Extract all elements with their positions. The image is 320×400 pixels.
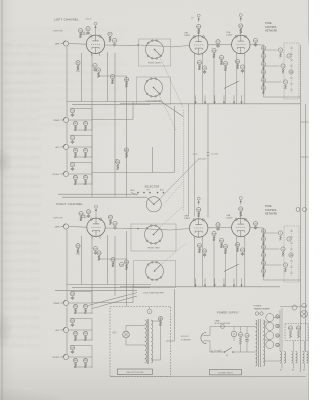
wire T1 primary top lead xyxy=(254,326,256,328)
resistor R39 on x126 xyxy=(124,260,128,264)
heater winding V5 xyxy=(303,352,305,364)
jack J5 tape input right xyxy=(63,224,68,229)
wire rail left y101 xyxy=(67,101,161,103)
output transformer T2 secondary xyxy=(151,320,153,363)
resistor R1 plate load V1A xyxy=(78,28,82,32)
B+ arrow above V3B xyxy=(198,201,200,206)
capacitor C23 cathode bypass V3A xyxy=(93,246,97,250)
wire corner x133 right xyxy=(132,285,134,303)
wire J1 to V1A grid xyxy=(69,43,86,46)
switch S2 power xyxy=(224,351,226,353)
capacitor C29 V4A cathode bypass xyxy=(240,248,244,252)
wire through P1 box xyxy=(138,45,171,47)
tone switch arm right xyxy=(224,264,239,272)
wire loop horizontal right xyxy=(166,340,175,342)
wire through wafer box right xyxy=(138,229,171,231)
resistor R23 cathode V3A xyxy=(76,244,80,248)
wire bus vertical from J5 xyxy=(66,229,68,300)
wire vertical x107 xyxy=(107,52,109,102)
B+ stub arrow left 5 xyxy=(233,95,235,104)
wire bus vertical from J1 xyxy=(66,46,68,117)
wire rectifier output xyxy=(274,317,280,319)
thermistor RT1 xyxy=(231,331,236,336)
capacitor C22 coupling V3A xyxy=(113,221,117,225)
rectifier stack SR1 xyxy=(266,314,274,322)
selector wiper linkage wire xyxy=(161,159,199,198)
B+ arrow above V4A xyxy=(240,200,242,205)
resistor R12 plate load V1B xyxy=(197,24,201,28)
tube V3B xyxy=(190,219,208,237)
wire plug top xyxy=(207,334,211,336)
wire stub right edge y122 xyxy=(301,121,309,123)
output transformer T2 core xyxy=(146,319,148,364)
level control P1 front panel left xyxy=(139,39,171,66)
resistor R38 V4A cathode xyxy=(235,242,239,246)
wire V1B pin drop 2 xyxy=(202,57,204,104)
wire V4A plate to R37 xyxy=(240,211,242,218)
wire heater bus top xyxy=(280,306,307,308)
power transformer T1 secondary xyxy=(263,320,264,366)
B+ stub arrow right 4 xyxy=(223,278,225,287)
wire T1 primary bottom lead xyxy=(254,351,256,353)
wire tone out left vertical xyxy=(300,45,302,372)
label box left bottom xyxy=(118,369,153,374)
heater winding V2/V4 xyxy=(292,352,294,364)
B+ stub arrow right 2 xyxy=(204,278,206,287)
wire bus vertical x115 right xyxy=(114,236,116,296)
wire V4A pin drop 2 xyxy=(244,239,246,287)
capacitor C10 tone feed xyxy=(253,38,257,42)
wire heater stubs xyxy=(281,363,283,369)
wire T2 to J9 bottom xyxy=(125,338,127,345)
resistor R43 bias xyxy=(296,326,300,330)
B+ arrow above V1B xyxy=(198,18,200,23)
resistor R34 V3B cathode xyxy=(197,243,201,247)
tone switch arm left xyxy=(224,81,239,89)
capacitor C28 V3B cathode bypass xyxy=(202,249,206,253)
resistor R16 xyxy=(223,61,227,65)
input cluster tuner right (jack J6, C24, R26, R27) xyxy=(63,300,68,305)
wire loop horizontal y172 xyxy=(92,172,175,174)
B+ stub arrow left 3 xyxy=(214,95,216,104)
capacitor C8 V1B cathode bypass xyxy=(202,66,206,70)
wire tone out left vertical 2 xyxy=(305,104,307,352)
left margin bleed column xyxy=(2,40,50,370)
resistor R35 xyxy=(219,238,223,242)
capacitor C31 line xyxy=(245,333,249,337)
B+ stub arrow right 6 xyxy=(241,278,243,287)
wire V4A pin drop 1 xyxy=(236,239,238,287)
wire V1B plate to R12 xyxy=(198,29,200,36)
wire selector feed y197 xyxy=(62,196,147,198)
pilot lamp DS1 xyxy=(301,311,308,318)
wire corner y119 xyxy=(92,119,133,121)
wire heater feed 3 xyxy=(304,341,306,352)
wire V1A plate to level control xyxy=(105,44,138,47)
wire V3B pin drop 1 xyxy=(194,240,196,287)
fuse F1 xyxy=(221,325,225,329)
wire bus vertical x81 xyxy=(81,53,83,102)
bias network dashed box xyxy=(285,324,308,341)
capacitor C2 coupling V1A xyxy=(112,38,116,42)
input cluster phono left (jack J4, C6, R10, R11) xyxy=(63,171,68,176)
selector terminals xyxy=(137,192,139,194)
wire V3B plate to C27 xyxy=(208,227,232,229)
mechanical linkage wafer2 right xyxy=(159,245,185,267)
output jack J11 xyxy=(303,208,307,212)
wire horizontal y76 xyxy=(98,75,127,77)
wire J5 to V3A grid xyxy=(69,226,86,229)
wire inter-channel run xyxy=(188,104,190,217)
speaker jack J9 xyxy=(123,331,130,338)
loudness control P2 rear wafer right xyxy=(134,261,176,288)
B+ terminal arrow above V1A xyxy=(95,26,97,31)
power transformer T1 core xyxy=(258,319,260,367)
mechanical linkage P2 to shaft xyxy=(158,92,177,132)
power transformer T1 primary xyxy=(256,320,257,366)
wire V2A pin drop 2 xyxy=(244,56,246,104)
B+ stub arrow right 5 xyxy=(233,278,235,287)
wire secondary taps xyxy=(263,321,270,323)
AC plug P3 xyxy=(201,333,207,344)
tube V3A xyxy=(87,218,105,236)
rectifier refs xyxy=(276,315,279,318)
wire selector feed y194 xyxy=(58,193,138,195)
wire rail left y104 xyxy=(72,103,150,105)
capacitor C7 coupling V1B to V2A xyxy=(216,40,220,44)
wire corner x133 xyxy=(132,102,134,120)
wire V3A plate to B+ xyxy=(95,213,97,218)
B+ stub arrow right 1 xyxy=(195,278,197,287)
resistor R24 cathode V3A xyxy=(97,251,101,255)
label box 120vac xyxy=(210,370,242,375)
tone control network right xyxy=(263,228,265,280)
tube V1A xyxy=(86,35,104,53)
resistor R2 grid V1A xyxy=(108,32,112,36)
resistor R41 surge xyxy=(238,332,242,336)
tube V1B xyxy=(190,36,208,54)
wire V2A pin drop 1 xyxy=(236,56,238,104)
level control P1 rear wafer right xyxy=(131,224,176,251)
wire vertical x126 right xyxy=(126,231,128,307)
wire bus vertical x81 right xyxy=(81,236,83,285)
B+ distribution rail right xyxy=(120,286,280,288)
resistor R15 xyxy=(219,55,223,59)
feeder wire to right channel xyxy=(207,104,209,218)
input cluster aux left (jack J3, C5, R8, R9) xyxy=(63,144,68,149)
wire T2 secondary bottom xyxy=(151,359,160,361)
wire V2A plate to R17 xyxy=(240,28,242,35)
wire V4A to tone network right xyxy=(250,227,264,230)
wire plug bottom xyxy=(207,340,211,342)
resistor R36 xyxy=(223,244,227,248)
B+ stub arrow right 3 xyxy=(214,278,216,287)
B+ arrow above V2A xyxy=(240,17,242,22)
resistor R40 dummy load xyxy=(158,316,162,320)
wire R16 drop xyxy=(225,71,227,104)
wire loop vertical x174 xyxy=(174,106,176,173)
loudness control P2 left xyxy=(137,77,171,104)
wire R33 drop xyxy=(213,241,215,287)
resistor R4 cathode V1A xyxy=(96,68,100,72)
resistor R32 plate load V3B xyxy=(197,207,201,211)
jack J1 tape input left xyxy=(63,41,68,46)
resistor R19b mid xyxy=(124,148,128,152)
wire diagonal to loudness label xyxy=(88,293,137,306)
wire heater feed 1 xyxy=(281,308,283,352)
wire rail right y290 xyxy=(55,289,137,291)
fuse holder circles xyxy=(292,305,297,310)
linkage diagonal to selector xyxy=(165,182,183,203)
wire bus vertical x92 right xyxy=(91,236,93,303)
wire bus vertical x115 xyxy=(114,53,116,197)
output transformer T2 primary xyxy=(145,320,147,363)
capacitor C9 V2A cathode bypass xyxy=(240,65,244,69)
wire rail right y287 xyxy=(72,286,150,288)
wire vertical x152 loop xyxy=(152,147,154,173)
wire P1 to V1B grid xyxy=(171,46,189,48)
wire vertical x126 xyxy=(126,76,128,197)
capacitor C21 decoupling V3A xyxy=(86,210,90,214)
resistor R3 cathode V1A xyxy=(76,61,80,65)
wire wafer to V3B grid xyxy=(171,229,189,231)
resistor R25 V3A bias xyxy=(111,257,115,261)
capacitor C36 on x126 xyxy=(119,262,123,266)
tube V2A xyxy=(232,35,250,53)
output jack J10 xyxy=(296,208,300,212)
wire V1B plate to C7 xyxy=(208,44,232,46)
B+ stub arrow left 1 xyxy=(195,95,197,104)
inline connector on feeder xyxy=(207,152,210,156)
wire R13 drop xyxy=(213,58,215,104)
resistor R33 grid leak V4A xyxy=(212,231,216,235)
resistor R22 grid V3A xyxy=(108,215,112,219)
wire V3B plate to R32 xyxy=(198,212,200,219)
wire V1B pin drop 1 xyxy=(194,57,196,217)
resistor R42 bias xyxy=(288,326,292,330)
circled note 1 xyxy=(147,309,152,314)
resistor R17 plate load V2A xyxy=(239,24,243,28)
B+ stub arrow left 4 xyxy=(223,95,225,104)
resistor R19 on x126 xyxy=(124,77,128,81)
scan edge artifacts xyxy=(1,0,3,400)
capacitor C3 cathode bypass V1A xyxy=(93,63,97,67)
input cluster aux right (jack J7, C25, R28, R29) xyxy=(63,327,68,332)
wire V3B pin drop 2 xyxy=(202,240,204,287)
B+ stub arrow left 2 xyxy=(204,95,206,104)
wire bottom rail xyxy=(110,376,306,378)
tube V4A xyxy=(232,218,250,236)
wire stub right edge y157 xyxy=(301,156,309,158)
capacitor C30 tone feed right xyxy=(253,221,257,225)
selector switch S1 xyxy=(146,197,161,212)
wire horizontal y259 xyxy=(98,258,127,260)
wire diagonal to loudness label 2 xyxy=(92,296,137,309)
transformer T1 terminals xyxy=(255,312,258,315)
wire R36 drop xyxy=(225,254,227,287)
resistor R5 V1A bias xyxy=(110,74,114,78)
B+ distribution rail left xyxy=(120,103,301,105)
input cluster phono right (jack J8, C26, R30, R31) xyxy=(63,354,68,359)
wire bus vertical x92 xyxy=(91,53,93,197)
resistor R20 mid xyxy=(115,159,118,161)
wire T2 to J9 top xyxy=(125,326,127,332)
wire rail right y284 xyxy=(67,284,151,286)
wire T2 secondary top xyxy=(151,320,160,322)
wire V2A to tone network xyxy=(250,44,264,47)
heater winding V1/V3 xyxy=(280,352,282,364)
resistor R37 plate load V4A xyxy=(239,207,243,211)
wire heater feed 2 xyxy=(293,341,295,352)
resistor R18 V2A cathode xyxy=(235,59,239,63)
selector shaft dashed linkage xyxy=(182,110,184,212)
B+ terminal arrow above V3A xyxy=(95,209,97,214)
mechanical linkage wafer1 right xyxy=(157,206,183,230)
speaker output dashed box xyxy=(110,307,171,377)
wire corner y302 right xyxy=(92,302,133,304)
wire V3A plate to level control xyxy=(105,227,138,230)
mechanical linkage P1 to shaft xyxy=(159,55,184,108)
wire loop vertical x174 right xyxy=(174,289,176,341)
capacitor C27 coupling V3B to V4A xyxy=(216,223,220,227)
input cluster tuner left (jack J2, C4, R6, R7) xyxy=(63,117,68,122)
wire vertical x107 right xyxy=(107,235,109,285)
B+ stub arrow left 6 xyxy=(241,95,243,104)
capacitor C1 decoupling V1A xyxy=(86,27,90,31)
wire V1A plate to B+ xyxy=(95,30,97,35)
resistor R21 plate load V3A xyxy=(79,211,83,215)
tone control network left xyxy=(263,45,265,97)
diagonal wire top xyxy=(161,102,183,117)
resistor R14 V1B cathode xyxy=(197,60,201,64)
resistor R13 grid leak V2A xyxy=(212,48,216,52)
